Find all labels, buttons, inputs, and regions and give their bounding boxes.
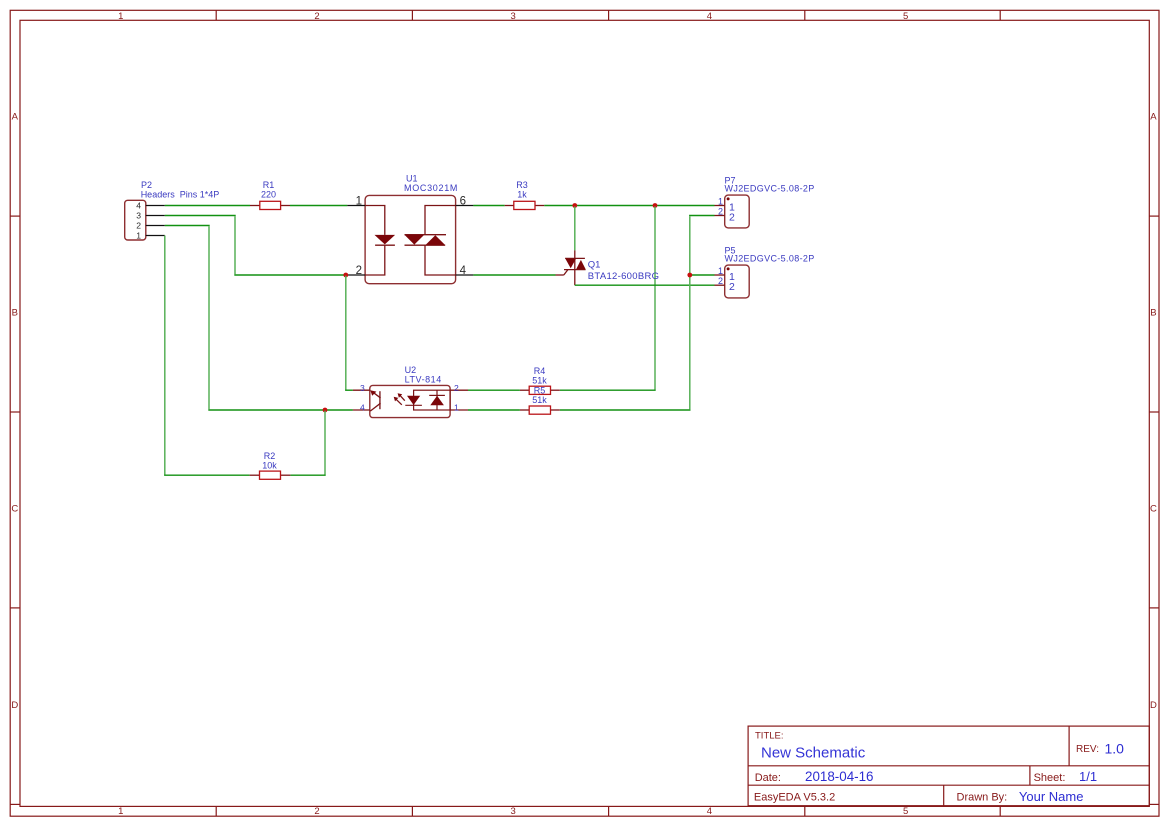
svg-text:A: A [12,112,19,123]
svg-text:2: 2 [136,221,141,231]
svg-text:1/1: 1/1 [1079,769,1097,784]
P5 pin numbers 1,2 [718,266,723,286]
svg-text:3: 3 [360,383,365,393]
triac Q1 [556,250,660,285]
connector P2 [125,180,220,241]
svg-text:2: 2 [729,281,735,293]
wire R1 to U1 pin1 [290,205,347,207]
svg-text:REV:: REV: [1076,744,1099,755]
svg-text:U1: U1 [406,173,418,183]
svg-text:Date:: Date: [755,772,781,784]
svg-text:51k: 51k [532,375,547,385]
wire P2 pin1 to R2 [164,236,166,475]
svg-text:TITLE:: TITLE: [755,731,784,742]
wire R3 to P7 pin1 [544,205,714,207]
svg-text:2: 2 [729,212,735,224]
junction [653,203,658,208]
svg-text:D: D [11,700,18,711]
svg-text:Sheet:: Sheet: [1034,772,1066,784]
wire P5 pin1 stub [690,274,715,276]
connector P5 [715,245,815,298]
svg-text:B: B [12,308,18,319]
svg-text:4: 4 [460,265,467,277]
svg-text:1: 1 [718,197,723,207]
svg-text:Q1: Q1 [588,259,601,270]
U1 internal LED and triac wiring [365,206,456,276]
svg-text:B: B [1150,308,1156,319]
wire U1 pin6 to R3 [473,205,504,207]
svg-text:2: 2 [718,207,723,217]
U2 pin numbers 3,4,2,1 [360,383,459,413]
svg-text:3: 3 [136,211,141,221]
optocoupler U1 [347,173,473,283]
U1 pin numbers 1,2,6,4 [356,196,467,278]
svg-text:2: 2 [454,383,459,393]
svg-text:Your Name: Your Name [1019,789,1084,804]
resistor R1 [250,180,290,210]
wire Q1 to P5 pin2 [575,284,715,286]
wire P7 pin2 down to R5 [689,215,714,217]
svg-text:3: 3 [511,11,516,22]
svg-text:4: 4 [360,403,365,413]
U2 back-to-back LED pair [405,390,450,410]
P7 pin stubs [715,205,725,207]
svg-text:P2: P2 [141,180,152,190]
svg-text:R3: R3 [516,180,528,190]
svg-text:1: 1 [118,806,123,817]
svg-text:3: 3 [511,806,516,817]
U1 LED triangle [375,235,396,245]
svg-text:1.0: 1.0 [1105,741,1125,757]
svg-text:5: 5 [903,11,908,22]
junction [687,273,692,278]
svg-text:4: 4 [136,201,141,211]
svg-text:2: 2 [314,806,319,817]
wire U1 pin4 to Q1 gate [473,274,555,276]
wire P2 pin3 to U1 pin2 [165,215,236,217]
svg-text:51k: 51k [532,395,547,405]
wire junction down to R4 [654,207,656,390]
wire P2 pin2 to U2 pin4 [165,225,210,227]
wire junction to U2 pin3 [345,276,347,390]
wire U2 pin1 to R5 [468,409,520,411]
svg-text:R1: R1 [263,180,275,190]
svg-text:2: 2 [314,11,319,22]
svg-text:C: C [1150,504,1157,515]
wire U2 pin2 to R4 [468,389,520,391]
svg-text:4: 4 [707,806,712,817]
svg-text:LTV-814: LTV-814 [405,375,442,385]
svg-text:C: C [11,504,18,515]
resistor R5 [520,386,560,415]
svg-text:2: 2 [718,276,723,286]
P2 pin numbers 4,3,2,1 [136,201,141,241]
U1 triac triangles [405,235,424,245]
junction [343,273,348,278]
wire junction to Q1 top [574,207,576,251]
svg-text:R2: R2 [264,451,276,461]
svg-text:U2: U2 [405,365,417,375]
wire R2 to junction [290,474,325,476]
optocoupler U2 [353,365,468,418]
svg-text:1: 1 [136,231,141,241]
P7 pin1 marker dot [727,197,730,200]
svg-text:220: 220 [261,190,276,200]
svg-text:D: D [1150,700,1157,711]
svg-text:WJ2EDGVC-5.08-2P: WJ2EDGVC-5.08-2P [725,254,815,264]
junction [572,203,577,208]
resistor R4 [520,366,560,395]
svg-text:1: 1 [356,196,362,208]
connector P7 [715,176,815,228]
junction [323,408,328,413]
svg-text:1: 1 [454,403,459,413]
svg-text:4: 4 [707,11,712,22]
svg-text:EasyEDA V5.3.2: EasyEDA V5.3.2 [754,791,835,803]
svg-text:5: 5 [903,806,908,817]
svg-text:MOC3021M: MOC3021M [404,183,458,193]
svg-text:BTA12-600BRG: BTA12-600BRG [588,271,660,282]
svg-text:2: 2 [356,265,362,277]
U2 light ray arrows [398,393,403,398]
svg-text:1: 1 [118,11,123,22]
resistor R2 [250,451,291,479]
svg-text:2018-04-16: 2018-04-16 [805,769,874,784]
wire P2 pin4 to R1 [165,205,250,207]
svg-text:New Schematic: New Schematic [761,745,866,762]
P5 pin stubs [715,274,725,276]
resistor R3 [505,180,545,210]
svg-text:6: 6 [460,196,466,208]
P7 pin numbers 1,2 [718,197,723,217]
U2 phototransistor [379,391,381,409]
P5 pin1 marker dot [727,267,730,270]
svg-text:A: A [1150,112,1157,123]
svg-text:Headers Pins 1*4P: Headers Pins 1*4P [141,190,220,200]
svg-text:Drawn By:: Drawn By: [957,791,1008,803]
svg-text:1k: 1k [517,190,527,200]
svg-text:1: 1 [718,266,723,276]
svg-text:10k: 10k [262,461,277,471]
svg-text:WJ2EDGVC-5.08-2P: WJ2EDGVC-5.08-2P [725,184,815,194]
